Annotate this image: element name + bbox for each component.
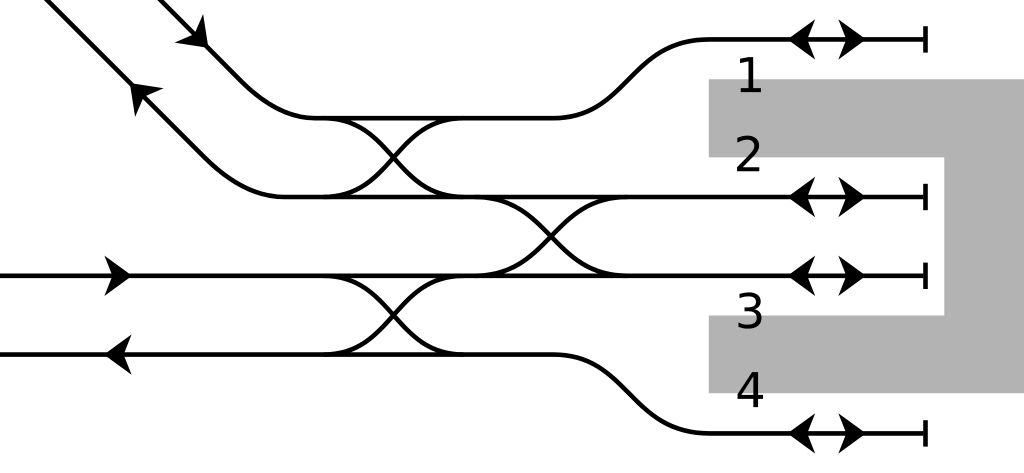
arrow inbound on diagonal B (points down-right) [175,14,223,62]
double arrow track 1 right [838,19,866,59]
double arrow track 2 right [838,177,866,217]
double arrow stub 4 left [788,413,816,453]
wire: outbound diagonal A, corner onto track 2 [42,0,923,197]
double arrow track 3 left [788,256,816,296]
bufferstop track 1 [923,26,928,52]
arrow right on track 3 [104,256,132,296]
wire: inbound diagonal B, corner onto middle siding, S-curve up to track 1 [156,0,924,118]
wire: track 3 straight [0,273,923,278]
double arrow track 1 left [788,19,816,59]
label platform track 4 [738,372,764,407]
arrow outbound on diagonal A (points up-left) [116,69,164,117]
label platform track 3 [738,292,761,328]
crossover siding/track2 descending [324,118,464,197]
arrow left on track 4 [104,334,132,374]
label platform track 1 [740,57,761,92]
crossover track2/track3 ascending [475,197,628,276]
double arrow track 2 left [788,177,816,217]
bufferstop track 2 [923,184,928,210]
platform (gray island, C-shape opening left) [709,79,1024,393]
crossover track3/track4 descending [324,276,464,355]
label platform track 2 [737,136,759,172]
wire: track 4, S-curve down to stub track [0,355,923,434]
crossover track3/track4 ascending [324,276,464,355]
bufferstop track 3 [923,263,928,289]
crossover siding/track2 ascending [324,118,464,197]
double arrow stub 4 right [838,413,866,453]
crossover track2/track3 descending [475,197,628,276]
double arrow track 3 right [838,256,866,296]
bufferstop stub track 4 [923,420,928,446]
